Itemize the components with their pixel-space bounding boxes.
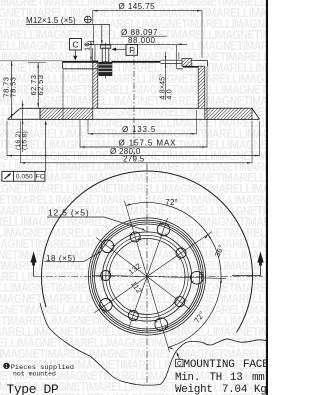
svg-text:Kg: Kg — [254, 384, 267, 395]
svg-text:Ø 157.5 MAX: Ø 157.5 MAX — [119, 139, 177, 148]
svg-text:72°: 72° — [165, 198, 178, 207]
svg-text:4.8×45°: 4.8×45° — [158, 74, 166, 100]
svg-text:Min.: Min. — [175, 372, 200, 384]
svg-text:M12×1.5 (×5): M12×1.5 (×5) — [26, 16, 76, 25]
svg-text:F: F — [129, 45, 134, 55]
svg-text:MOUNTING: MOUNTING — [184, 359, 235, 371]
svg-text:TH: TH — [210, 372, 223, 384]
svg-text:279.5: 279.5 — [123, 154, 145, 163]
svg-text:12.5 (×5): 12.5 (×5) — [48, 208, 89, 218]
svg-text:0.050: 0.050 — [16, 174, 33, 181]
svg-text:Ø 133.5: Ø 133.5 — [122, 125, 156, 134]
svg-text:78.53: 78.53 — [9, 77, 18, 98]
svg-text:FACE: FACE — [243, 359, 268, 371]
svg-text:Ø 145.75: Ø 145.75 — [119, 2, 156, 11]
svg-text:10: 10 — [83, 42, 92, 51]
svg-text:Weight: Weight — [175, 384, 213, 395]
svg-text:13: 13 — [230, 372, 243, 384]
svg-text:4.0: 4.0 — [167, 89, 174, 99]
svg-text:88.000: 88.000 — [128, 36, 156, 45]
svg-text:C: C — [72, 40, 78, 50]
svg-text:FC: FC — [35, 174, 44, 181]
svg-text:(15.8): (15.8) — [22, 131, 29, 150]
svg-text:1: 1 — [5, 364, 8, 370]
svg-text:62.53: 62.53 — [36, 75, 45, 96]
svg-text:Type DP: Type DP — [7, 382, 59, 395]
svg-text:mm: mm — [252, 372, 265, 384]
svg-text:7.04: 7.04 — [222, 384, 247, 395]
svg-text:not mounted: not mounted — [13, 370, 56, 377]
svg-text:C: C — [177, 360, 182, 367]
